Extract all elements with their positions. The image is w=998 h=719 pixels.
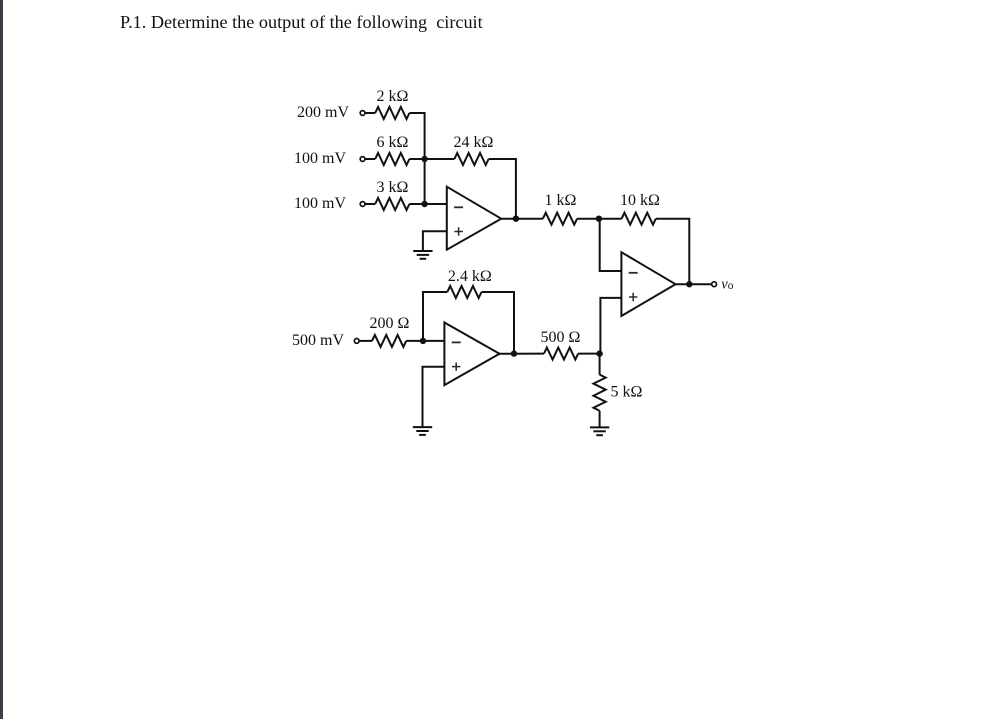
wire: R1 to node A [409,113,424,159]
resistor R2 6 k&#937; [375,153,409,165]
svg-text:vo: vo [721,277,733,293]
wire: node C to U3 inverting input [600,219,622,271]
input terminal V4 (500 mV source) [354,339,359,344]
svg-text:200 Ω: 200 Ω [370,315,410,332]
svg-text:10 kΩ: 10 kΩ [620,192,660,209]
wire: node F up to R8 [423,292,447,341]
junction: node A (summing node top) [421,156,427,162]
svg-text:500 mV: 500 mV [292,332,344,349]
junction: U1 output node [513,216,519,222]
svg-text:3 kΩ: 3 kΩ [377,179,409,196]
wire: node A to node B [424,159,426,204]
wire: R2 to node A [409,158,424,160]
resistor R7 200 &#937; [372,335,406,347]
wire: R3 to node B [409,203,424,205]
junction: node B (U1 inverting input node) [421,201,427,207]
resistor R10 5 k&#937; [593,375,605,411]
wire: U2 non-inverting input to ground [423,367,445,427]
resistor R4 24 k&#937; (U1 feedback) [454,153,488,165]
op-amp U1 [447,187,501,250]
wire: U1 output to R5 [501,218,543,220]
svg-text:6 kΩ: 6 kΩ [377,134,409,151]
resistor R1 2 k&#937; [375,107,409,119]
wire: U3 non-inverting input to node E [600,298,621,354]
input terminal V1 (200 mV source) [360,111,365,116]
wire: V4 terminal to R7 [360,340,373,342]
wire: node A to R4 [425,158,455,160]
ground (U2 non-inverting input) [413,427,432,435]
svg-text:24 kΩ: 24 kΩ [454,134,494,151]
junction: U2 output node [511,350,517,356]
svg-text:1 kΩ: 1 kΩ [545,192,577,209]
input terminal V2 (100 mV source) [360,157,365,162]
wire: node B to U1 inverting input [425,203,447,205]
resistor R5 1 k&#937; [543,213,577,225]
wire: node E to R10 [599,354,601,375]
wire: V1 terminal to R1 [365,112,375,114]
svg-text:100 mV: 100 mV [294,195,346,212]
wire: V3 terminal to R3 [365,203,375,205]
wire: R8 to U2 output node [482,292,515,354]
svg-text:100 mV: 100 mV [294,150,346,167]
svg-text:500 Ω: 500 Ω [541,329,581,346]
wire: R7 to node F [406,340,423,342]
op-amp U3 [621,252,675,316]
op-amp U2 [444,323,499,386]
wire: U1 non-inverting input to ground [423,231,447,251]
ground (U1 non-inverting input) [413,251,432,259]
svg-text:5 kΩ: 5 kΩ [611,384,643,401]
resistor R6 10 k&#937; (U3 feedback) [622,213,656,225]
svg-text:2 kΩ: 2 kΩ [377,88,409,105]
resistor R9 500 &#937; [544,348,578,360]
junction: node E (U3 non-inverting input node) [596,350,602,356]
svg-text:200 mV: 200 mV [297,104,349,121]
wire: R9 to node E [578,353,599,355]
junction: node C (U3 inverting input node) [596,216,602,222]
wire: R5 to node C [577,218,599,220]
input terminal V3 (100 mV source) [360,202,365,207]
wire: R4 to U1 output node [489,159,516,219]
wire: R6 to U3 output node [656,219,690,285]
junction: node F (U2 inverting input node) [420,338,426,344]
svg-text:2.4 kΩ: 2.4 kΩ [448,268,492,285]
junction: U3 output node [686,281,692,287]
ground (below R10) [590,427,609,435]
wire: node C to R6 [599,218,622,220]
resistor R3 3 k&#937; [375,198,409,210]
wire: R10 to ground [599,411,601,428]
resistor R8 2.4 k&#937; (U2 feedback) [447,286,481,298]
wire: U2 output to R9 [500,353,545,355]
output terminal Vo [712,282,717,287]
wire: U3 output to Vo terminal [676,283,712,285]
wire: V2 terminal to R2 [365,158,375,160]
wire: node F to U2 inverting input [423,340,444,342]
